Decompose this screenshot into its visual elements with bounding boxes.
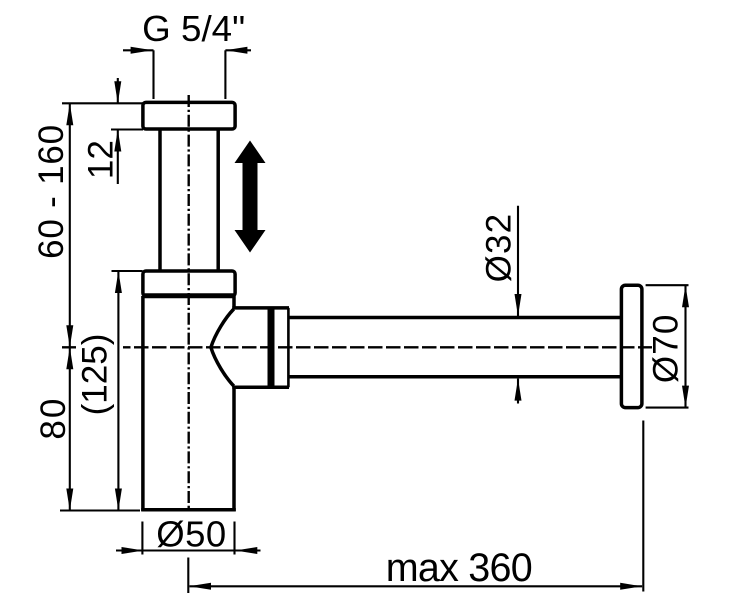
outlet bottom edge: [232, 385, 289, 389]
dim O70 top arrow: [682, 285, 689, 307]
dim 80 bottom arrow: [66, 489, 73, 511]
dim G 5/4 right arrow: [225, 47, 247, 54]
adjustment double arrow: [235, 141, 266, 253]
svg-text:G 5/4": G 5/4": [142, 8, 245, 49]
dim O70 line: [684, 285, 686, 407]
bottle body right wall lower part: [232, 386, 236, 512]
riser tube left wall: [158, 129, 162, 271]
dim G 5/4 left line: [123, 49, 154, 51]
dim 12 lower extension line: [111, 128, 143, 130]
dim max 360 left arrow: [189, 583, 211, 590]
bottle body left wall: [141, 296, 145, 511]
dim O32 upper arrow: [515, 294, 522, 316]
dim (125) line: [117, 271, 119, 511]
dim 80 bottom extension line: [60, 509, 140, 511]
collar thick bottom edge: [143, 293, 235, 298]
dim O50 line: [116, 549, 261, 551]
dim G 5/4 left extension line: [152, 50, 154, 99]
svg-text:12: 12: [82, 140, 121, 179]
dim 12 upper arrow: [114, 81, 121, 103]
dim 12 upper arrow shaft: [117, 78, 119, 103]
dim 80 top arrow: [66, 347, 73, 369]
wall tube top wall: [288, 316, 621, 320]
svg-text:Ø50: Ø50: [156, 514, 226, 555]
dim 12 lower arrow shaft: [117, 130, 119, 185]
dim O32 upper line: [517, 206, 519, 316]
horizontal centerline: [62, 346, 652, 348]
dim max 360 right arrow: [620, 583, 642, 590]
dim O32 lower arrow: [515, 379, 522, 401]
top nut flange: [143, 102, 235, 129]
svg-text:(125): (125): [76, 334, 115, 416]
outlet top edge: [232, 306, 289, 310]
bottle bottom: [141, 508, 236, 512]
dim (125) text background mask: [76, 333, 123, 416]
dim (125) bottom arrow: [115, 489, 122, 511]
riser tube right wall: [216, 129, 220, 271]
dim max 360 line: [190, 585, 643, 587]
dim 60-160 and 80 shared line: [69, 103, 71, 510]
wall rosette flange: [621, 285, 642, 407]
dim O70 bottom arrow: [682, 386, 689, 408]
svg-text:max 360: max 360: [386, 546, 533, 590]
outlet nut right edge: [287, 308, 290, 387]
dim 12 upper extension line: [62, 102, 143, 104]
dim G 5/4 left arrow: [131, 47, 153, 54]
outlet elbow dome curve: [211, 309, 234, 386]
dim max 360 left extension line: [187, 558, 189, 594]
dim O50 left arrow: [122, 547, 144, 554]
svg-text:60 - 160: 60 - 160: [32, 125, 71, 259]
dim 60-160 bottom arrow: [66, 325, 73, 347]
svg-text:Ø70: Ø70: [647, 315, 686, 384]
svg-text:Ø32: Ø32: [480, 214, 519, 283]
dim max 360 right extension line: [642, 421, 644, 592]
dim G 5/4 right extension line: [224, 50, 226, 99]
dim (125) top arrow: [115, 271, 122, 293]
bottle body right wall upper stub: [232, 296, 236, 310]
dim O50 right extension line: [233, 522, 235, 555]
dim O70 top extension line: [646, 284, 689, 286]
dim 60-160 top arrow: [66, 103, 73, 125]
dim O50 left extension line: [141, 522, 143, 555]
dim O50 right arrow: [235, 547, 257, 554]
dim O70 bottom extension line: [646, 407, 689, 409]
dim G 5/4 right line: [225, 49, 251, 51]
collar nut on bottle top: [143, 271, 235, 296]
dim O32 lower line: [517, 379, 519, 404]
dim 12 lower arrow: [114, 130, 121, 152]
outlet nut thick bar: [268, 308, 275, 387]
dim (125) top extension line: [112, 270, 143, 272]
vertical centerline: [187, 95, 189, 512]
wall tube bottom wall: [288, 375, 621, 379]
